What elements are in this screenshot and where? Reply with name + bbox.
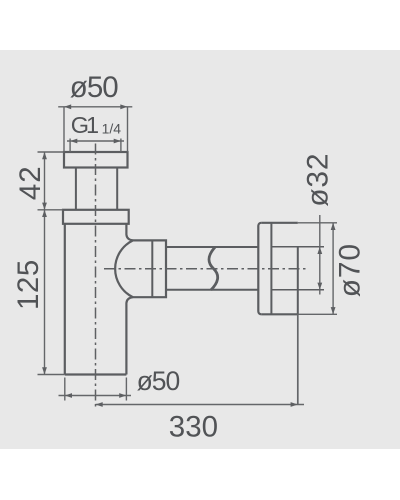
pipe break squiggle [209, 247, 218, 290]
bottle body left wall [64, 224, 66, 375]
svg-text:ø50: ø50 [70, 71, 118, 104]
center line vertical (bottle axis) [95, 144, 97, 409]
svg-text:1/4: 1/4 [102, 121, 122, 137]
dim 330: line [96, 404, 305, 406]
svg-text:330: 330 [169, 411, 218, 444]
dim 125: line [44, 210, 46, 375]
wall flange right edge [297, 247, 299, 314]
bottle body right wall upper + fillet to branch [126, 224, 133, 241]
dim Ø70: line [332, 223, 334, 314]
dim Ø50 bottom: extension lines [65, 378, 127, 401]
dim Ø50 bottom: line [59, 395, 132, 397]
dim Ø50 top: extension lines [64, 107, 128, 152]
dim Ø32: line [319, 215, 321, 295]
dim 125: extension line bottom [38, 374, 65, 376]
dim G1 1/4: line [67, 140, 124, 142]
wall flange bottom edge [261, 313, 298, 315]
arrows [42, 104, 335, 407]
top collar nut (Ø50) [64, 152, 128, 168]
42 arrows [42, 152, 47, 159]
dim 42: line [44, 152, 46, 210]
bottle body bottom [65, 373, 127, 375]
Ø50 top arrows [64, 104, 71, 109]
branch nut outline [133, 240, 166, 297]
wall flange top edge [261, 222, 298, 224]
branch nut inner line [151, 240, 153, 297]
svg-text:ø32: ø32 [301, 153, 334, 207]
wall flange left edge [258, 223, 261, 314]
svg-text:ø50: ø50 [137, 366, 180, 396]
Ø70 arrows [331, 223, 336, 230]
pipe lines inside flange (Ø32 extension) [271, 246, 324, 248]
branch dome curve [115, 240, 133, 297]
bottle flange [63, 210, 129, 224]
outlet pipe top line [166, 246, 258, 248]
330 arrows [96, 402, 103, 407]
svg-text:ø70: ø70 [334, 243, 367, 297]
125 arrows [42, 210, 47, 217]
dim Ø50 top: line [58, 106, 132, 108]
Ø50 bottom arrows [65, 393, 72, 398]
wall flange top extension [298, 222, 337, 224]
Ø32 arrows [317, 247, 322, 254]
gray drawing panel [0, 50, 400, 449]
wall flange bottom extension [298, 313, 337, 315]
svg-text:125: 125 [12, 259, 45, 310]
center line horizontal (outlet axis) [104, 268, 308, 270]
dim 42: extension line top [38, 151, 65, 153]
inlet pipe walls [76, 168, 117, 210]
outlet pipe bottom line [166, 289, 258, 291]
bottle body right wall lower + fillet from branch [126, 297, 133, 374]
svg-text:42: 42 [14, 165, 47, 200]
dim G1 1/4: extension lines [70, 139, 121, 153]
dim 42: extension line bottom [38, 209, 64, 211]
wall flange inner vertical [270, 223, 272, 314]
G1 arrows [70, 139, 77, 144]
330 right extension (flange edge continued) [297, 314, 299, 404]
svg-text:G1: G1 [71, 112, 98, 138]
